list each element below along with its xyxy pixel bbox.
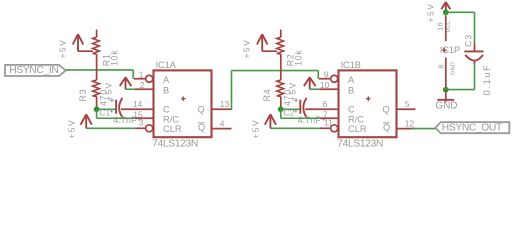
svg-text:B: B <box>163 86 169 96</box>
svg-text:HSYNC_IN: HSYNC_IN <box>9 65 58 76</box>
svg-text:6: 6 <box>323 99 328 109</box>
svg-text:+5V: +5V <box>288 81 298 101</box>
svg-text:C2: C2 <box>284 108 295 118</box>
svg-text:Q: Q <box>382 105 389 115</box>
svg-text:9: 9 <box>324 70 329 80</box>
svg-text:Q: Q <box>383 123 390 133</box>
svg-text:C3: C3 <box>464 34 474 47</box>
svg-text:A: A <box>163 75 170 85</box>
svg-text:C1: C1 <box>99 108 110 118</box>
svg-text:CLR: CLR <box>348 124 367 134</box>
svg-text:13: 13 <box>220 99 230 109</box>
svg-text:4: 4 <box>220 118 225 128</box>
svg-text:8: 8 <box>437 64 446 68</box>
svg-text:IC1A: IC1A <box>156 59 177 70</box>
svg-text:C: C <box>348 105 355 115</box>
svg-text:B: B <box>348 86 354 96</box>
svg-text:CLR: CLR <box>163 124 182 134</box>
svg-text:74LS123N: 74LS123N <box>337 139 383 150</box>
svg-text:GND: GND <box>435 101 457 112</box>
svg-text:14: 14 <box>133 99 143 109</box>
svg-text:+5V: +5V <box>67 119 77 139</box>
svg-text:VCC: VCC <box>446 20 452 32</box>
svg-text:10k: 10k <box>294 49 304 66</box>
svg-text:C: C <box>163 105 170 115</box>
svg-text:R3: R3 <box>78 89 88 102</box>
svg-text:Q: Q <box>198 123 205 133</box>
svg-text:R4: R4 <box>262 89 272 102</box>
svg-text:+5V: +5V <box>426 3 436 23</box>
svg-text:GND: GND <box>450 62 456 75</box>
svg-text:2: 2 <box>140 80 145 90</box>
svg-text:10k: 10k <box>109 49 119 66</box>
svg-text:11: 11 <box>324 118 333 128</box>
svg-text:HSYNC_OUT: HSYNC_OUT <box>442 122 503 133</box>
svg-text:A: A <box>348 75 355 85</box>
svg-text:12: 12 <box>405 118 415 128</box>
svg-text:IC1P: IC1P <box>440 44 460 55</box>
svg-text:+5V: +5V <box>57 39 67 59</box>
svg-text:3: 3 <box>139 118 144 128</box>
svg-text:R/C: R/C <box>348 114 364 124</box>
svg-text:1: 1 <box>139 70 144 80</box>
svg-text:74LS123N: 74LS123N <box>152 139 198 150</box>
svg-text:5: 5 <box>405 99 410 109</box>
svg-text:Q: Q <box>197 105 204 115</box>
svg-text:16: 16 <box>436 22 445 30</box>
svg-text:+5V: +5V <box>251 119 261 139</box>
svg-text:R/C: R/C <box>163 114 179 124</box>
svg-text:0.1uF: 0.1uF <box>482 64 493 96</box>
svg-text:10: 10 <box>320 80 330 90</box>
svg-text:+5V: +5V <box>103 81 113 101</box>
svg-text:IC1B: IC1B <box>341 59 361 70</box>
svg-text:+5V: +5V <box>242 39 252 59</box>
svg-text:4.7nF: 4.7nF <box>298 115 322 125</box>
